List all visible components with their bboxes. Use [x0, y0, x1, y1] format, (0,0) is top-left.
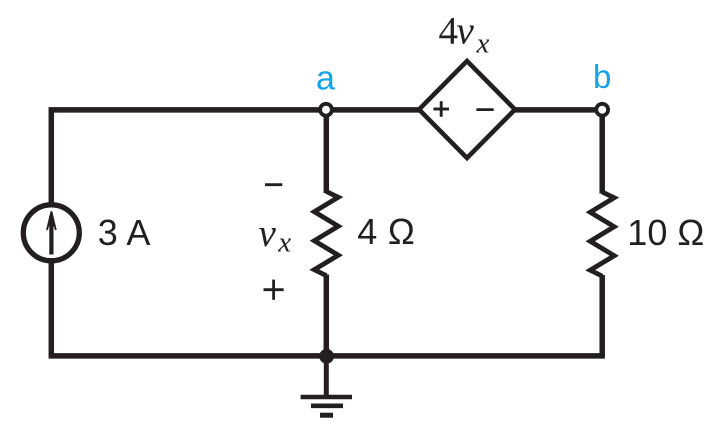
svg-text:10 Ω: 10 Ω	[627, 212, 704, 253]
current source I1 3A circle	[23, 205, 79, 261]
resistor R1 4ohm zigzag	[314, 192, 338, 276]
wire top rail left segment (left corner to node a)	[51, 110, 326, 356]
svg-text:a: a	[316, 60, 335, 98]
svg-text:3 A: 3 A	[98, 212, 151, 253]
minus sign inside diamond	[476, 108, 493, 111]
wire middle branch upper (node a to resistor R1)	[324, 110, 330, 193]
wire middle branch lower (resistor R1 to bottom rail)	[324, 275, 330, 357]
wire top rail node a to diamond left vertex	[326, 107, 421, 113]
svg-text:v: v	[457, 10, 475, 53]
svg-text:x: x	[277, 226, 291, 258]
minus polarity label of vx	[265, 183, 282, 186]
ground symbol	[301, 356, 352, 415]
wire bottom rail	[49, 353, 605, 359]
dependent source U1 diamond	[419, 61, 515, 158]
label 4vx above diamond	[439, 10, 490, 60]
label vx	[259, 212, 292, 258]
node b open circle	[596, 104, 608, 116]
plus polarity label of vx	[264, 280, 284, 300]
svg-text:v: v	[259, 212, 277, 255]
svg-text:x: x	[476, 28, 490, 60]
svg-text:4 Ω: 4 Ω	[357, 211, 415, 252]
plus sign inside diamond	[433, 101, 449, 117]
wire right branch upper (node b to resistor R2)	[599, 110, 605, 194]
current source I1 arrow	[47, 211, 56, 255]
node a open circle	[320, 104, 332, 116]
svg-text:b: b	[593, 58, 611, 95]
wire top rail diamond right vertex to node b	[513, 107, 602, 113]
wire right branch lower (resistor R2 to bottom rail)	[599, 275, 605, 357]
junction dot at reference node	[319, 349, 334, 364]
resistor R2 10ohm zigzag	[590, 192, 614, 276]
svg-text:4: 4	[439, 10, 459, 53]
